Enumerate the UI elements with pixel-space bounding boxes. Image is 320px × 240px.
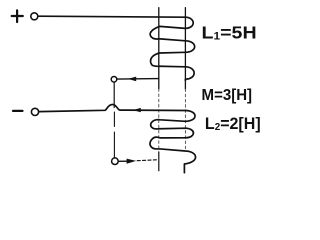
inductor L2 winding [150,111,196,173]
minus terminal sign [13,110,23,112]
core line left [158,8,160,89]
inductor L1 winding [150,17,195,80]
tap node upper [111,77,117,83]
plus terminal sign [12,10,23,22]
link wire down from upper tap [113,82,115,108]
arrowhead on - wire (points left) [133,108,141,112]
wire from + terminal [39,16,186,17]
label L1 = 5H [202,22,257,42]
svg-text:M=3[H]: M=3[H] [202,87,253,105]
arrowhead on L1 lead (points left) [128,77,136,82]
arrowhead on lower lead (points right) [127,159,137,164]
label M = 3[H] [202,87,253,105]
wire from - terminal with crossover hump [39,104,186,111]
svg-text:L2=2[H]: L2=2[H] [205,115,261,134]
label L2 = 2[H] [205,115,261,134]
core line right [184,8,186,89]
svg-text:L1=5H: L1=5H [202,22,257,42]
terminal node (+) [31,13,38,20]
dashed link to winding L2 [137,160,158,161]
terminal node (-) [31,108,38,115]
L1 bottom lead wire to tap [117,78,159,81]
lead from lower tap [118,160,126,162]
tap node lower [112,158,119,165]
